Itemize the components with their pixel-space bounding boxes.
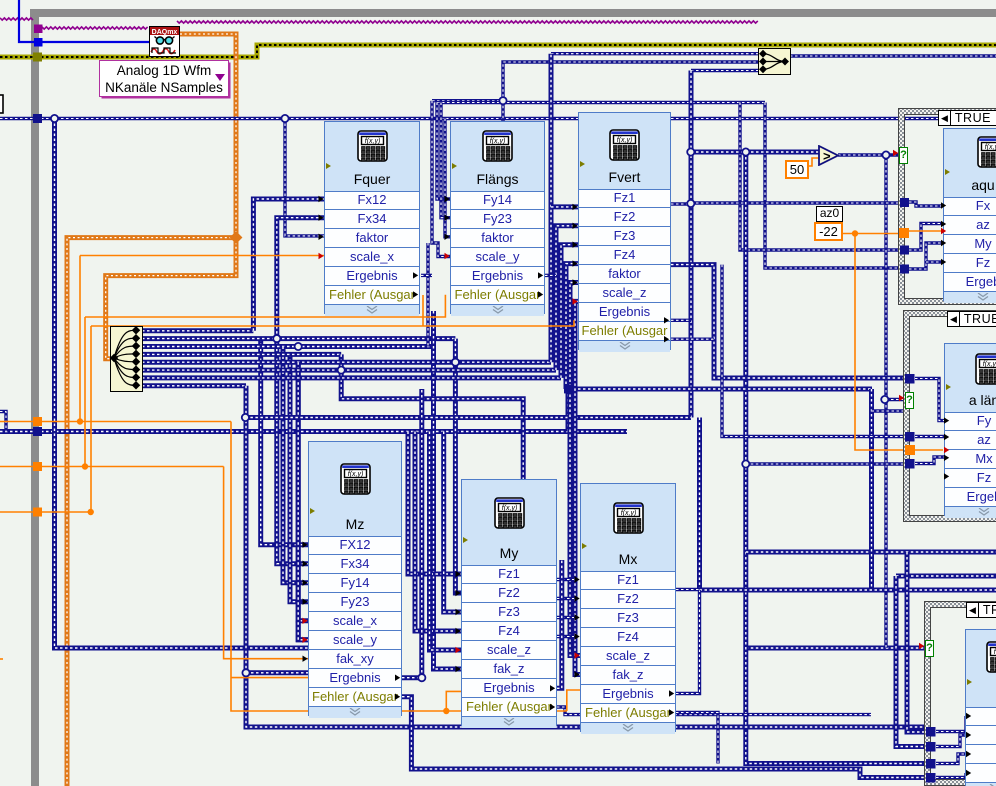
svg-text:DAQmx: DAQmx — [152, 29, 178, 36]
junction J-885 — [881, 396, 888, 403]
svg-text:f(x,y): f(x,y) — [983, 361, 996, 368]
junction J-285 — [281, 115, 288, 122]
tunnel c2-t2 — [905, 432, 915, 442]
wire os-mzerg (scalar orange) — [231, 422, 567, 712]
terminals Mx-left — [575, 576, 580, 677]
junction square 568 — [564, 385, 572, 393]
wire c1-w4 — [926, 260, 941, 263]
svg-text:f(x,y): f(x,y) — [365, 138, 381, 145]
wire v54-case3sel — [55, 119, 309, 649]
wire fan-w3 — [142, 344, 434, 349]
wire v699-h590 — [697, 418, 702, 591]
wire fan-w5 — [142, 360, 551, 365]
tunnel orange-y421 — [33, 417, 42, 426]
wire v285-Fquer-faktor — [285, 119, 324, 236]
wire bus-y430 — [41, 429, 627, 434]
wire os-c2az (scalar orange) — [915, 449, 943, 451]
wire v441-Fy23 — [441, 103, 450, 218]
constant 50 — [785, 160, 809, 179]
wire h417 — [245, 415, 691, 420]
terminals My-right — [550, 685, 555, 710]
junction J-298 — [295, 343, 302, 350]
node signal fan-out — [110, 326, 143, 397]
node My — [461, 479, 557, 726]
junction J-422 — [418, 674, 425, 681]
wire os-mzergleft (scalar orange) — [231, 677, 308, 679]
selector case1 — [899, 147, 908, 164]
wire h102-right — [437, 101, 765, 104]
terminals alaen-left — [944, 417, 949, 479]
wire olive-main (error/olive) — [41, 45, 996, 57]
junction J-886 — [882, 151, 889, 158]
wire blue-top (I32 blue) — [19, 0, 34, 42]
wire os-mzfak-left (scalar orange) — [0, 658, 3, 660]
wire mx-fz4 — [557, 635, 574, 638]
comparator greater-than — [818, 145, 840, 171]
wire fvert-fehler-out — [671, 338, 714, 341]
wire case2-t3-feed — [746, 462, 906, 465]
wire os-v80 (scalar orange) — [79, 256, 81, 422]
junction J-245 — [242, 414, 249, 421]
terminals Mx-right — [669, 690, 674, 715]
label Analog 1D Wfm NKanaele NSamples — [99, 60, 229, 97]
wire fvert-ergebnis-out — [671, 319, 691, 322]
terminals aqu-left — [941, 202, 946, 265]
wire merge-in2 — [432, 62, 758, 101]
junction OJ-85 — [82, 463, 88, 469]
svg-text:f(x,y): f(x,y) — [490, 138, 506, 145]
wire os-mxerg (scalar orange) — [567, 690, 580, 711]
wire h411-case2 — [872, 409, 905, 412]
wire os-c1az (scalar orange) — [909, 230, 941, 232]
junction J-246b — [242, 669, 249, 676]
wire os-50 (scalar orange) — [808, 158, 819, 166]
wire mx-fz2 — [557, 597, 574, 600]
junction J-691b — [687, 200, 694, 207]
wire v907-case3t1 — [907, 552, 927, 732]
wire mx-fz1 — [557, 578, 574, 581]
wire mx-fehler-out — [676, 713, 718, 764]
wire w2-down-MyFz2 — [455, 339, 461, 593]
wire purple-left (DAQmx task purple) — [0, 18, 33, 20]
wire v872 — [869, 389, 874, 590]
wire h389 — [568, 387, 872, 392]
wire case2-sel-feed — [886, 398, 906, 401]
terminals Fvert-right — [664, 317, 669, 342]
case structure case1 TRUE — [898, 108, 996, 305]
wire w4-down-MzFy23 — [290, 354, 308, 601]
junction OJ-90 — [88, 509, 94, 515]
wire os-fakxy (scalar orange) — [224, 467, 308, 659]
terminals My-left — [456, 571, 461, 672]
junction OJ-80 — [77, 418, 83, 424]
wire h590 — [700, 588, 996, 593]
tunnel c3-t1 — [926, 727, 936, 737]
tunnel olive — [33, 53, 42, 62]
tunnel blue — [34, 38, 43, 47]
wire os-v85 (scalar orange) — [84, 317, 86, 467]
wire w4-zig — [341, 354, 523, 479]
wire w2-up-Fx34 — [277, 218, 324, 339]
label az0 — [816, 206, 843, 222]
wire v568 — [566, 389, 571, 432]
wire v428-down — [426, 243, 429, 347]
wire gt-input — [691, 150, 819, 155]
wire v445-Flaengs-faktor — [445, 119, 450, 237]
tunnel purple — [34, 25, 43, 34]
wire flaengs-ergebnis-out — [545, 274, 556, 277]
wire orange-branch-left (2D-array orange) — [67, 238, 236, 786]
constant -22 — [814, 222, 843, 241]
junction J-341 — [338, 367, 345, 374]
wire w7-up-FvertFz3 — [561, 245, 578, 378]
wire c2-w2 — [915, 435, 944, 438]
tunnel navy-y118 — [33, 114, 42, 123]
junction OJ-446 — [443, 708, 449, 714]
node signal merge — [758, 48, 791, 80]
terminals Fquer-left — [319, 196, 324, 259]
wire bus-y118 — [41, 117, 996, 120]
node aqu — [943, 128, 996, 301]
wire os-C2 (scalar orange) — [422, 295, 424, 326]
wire w1-down-MzFX12 — [261, 339, 308, 545]
junction orange diamond — [230, 231, 243, 244]
wire v570-faktor-MxScaleZ — [570, 283, 580, 656]
wire w5-up-FvertFz1 — [549, 54, 554, 363]
wire os-t1 (scalar orange) — [0, 421, 231, 423]
svg-text:f(x,y): f(x,y) — [621, 510, 637, 517]
wire c3-w2 — [936, 735, 966, 747]
wire c1-w2 — [909, 224, 941, 251]
wire v765-case1t3 — [765, 103, 901, 269]
wire merge-in1 — [551, 52, 758, 55]
terminals Fquer-right — [413, 272, 418, 298]
junction J-745 — [742, 148, 749, 155]
wire c2-w1 — [915, 379, 944, 421]
node Mz — [308, 441, 402, 716]
wire os-B (scalar orange) — [85, 295, 445, 317]
wire v437-Fy14 — [437, 103, 450, 200]
wire purple-DAQmx-east (DAQmx task purple) — [177, 21, 758, 23]
wire w3-down-MyFakz — [434, 311, 462, 669]
tunnel c3-t4 — [926, 773, 936, 783]
wire v745-down — [746, 152, 927, 764]
wire case2-t2-feed — [722, 265, 906, 437]
junction J-455 — [452, 359, 459, 366]
wire w5-down-MzScaleY — [298, 621, 308, 640]
wire mz-fehler-out — [402, 697, 927, 778]
wire my-fz3 — [444, 432, 461, 613]
case case3 TRUE selector label — [966, 602, 996, 618]
wire mx-fz3 — [557, 616, 574, 619]
svg-text:f(x,y): f(x,y) — [502, 505, 518, 512]
wire w8-down-case3 — [246, 386, 927, 727]
wire purple-tunnel-to-DAQmx (DAQmx task purple) — [42, 27, 148, 29]
node Mx — [580, 483, 676, 732]
wire c3-w1 — [936, 716, 966, 732]
case structure case2 TRUE — [903, 310, 996, 522]
node case3-node — [965, 629, 996, 786]
wire c1-w3 — [909, 243, 941, 269]
wire c3-w4 — [936, 773, 966, 778]
node DAQmx Read — [149, 26, 180, 57]
tunnel c3-t3 — [926, 759, 936, 769]
wire h648-right — [746, 646, 926, 651]
wire c2-w3 — [915, 457, 944, 464]
tunnel c1-t3 — [900, 265, 909, 274]
wire fan-w2 — [142, 336, 455, 341]
selector case2 — [905, 392, 914, 409]
wire orange-DAQmx-down (2D-array orange) — [180, 34, 236, 238]
wire case1-t1-feed — [691, 201, 901, 204]
wire os-v91 (scalar orange) — [90, 326, 92, 512]
terminals Flaengs-left — [445, 196, 450, 259]
wire fan-w1 — [142, 328, 253, 333]
case case2 TRUE selector label — [947, 311, 996, 327]
partial icon left edge — [0, 95, 3, 113]
wire h552 — [746, 550, 996, 555]
junction J-503 — [499, 97, 506, 104]
wire stub-503 — [501, 101, 504, 121]
wire blue-to-DAQmx (I32 blue) — [42, 41, 149, 43]
tunnel c1-orange — [899, 228, 909, 238]
wire h576 — [896, 574, 996, 579]
wire bus-y118-left — [0, 117, 33, 120]
wire my-ergebnis-out — [557, 560, 562, 688]
wire merge-out — [790, 54, 996, 57]
wire elbow-left-bus — [0, 412, 6, 432]
selector case3 — [925, 640, 934, 657]
wire w8-MzErg-left — [246, 670, 308, 675]
wire c3-w3 — [936, 754, 966, 764]
node Flaengs — [450, 121, 545, 314]
wire my-fehler-out — [557, 707, 871, 715]
tunnel c1-t1 — [900, 198, 909, 207]
terminals Mz-left — [303, 542, 308, 662]
wire my-fz1 — [408, 432, 461, 575]
wire fvert-fz4-right — [671, 265, 906, 378]
wire os-myerg (scalar orange) — [446, 691, 461, 711]
tunnel c3-t2 — [926, 742, 936, 752]
wire gt-out — [838, 153, 898, 156]
wire mz-ergebnis-out — [402, 389, 422, 678]
wire w6-up-FvertFz2 — [556, 226, 578, 370]
wire merge-in3 — [691, 69, 758, 72]
wire fan-w4 — [142, 352, 341, 357]
svg-text:f(x,y): f(x,y) — [985, 144, 996, 151]
svg-text:>: > — [823, 149, 831, 164]
junction OJ-855 — [852, 230, 858, 236]
wire fvert-fz1-out — [671, 202, 691, 205]
wire os-scalex (scalar orange) — [80, 255, 324, 257]
tunnel c2-t3 — [905, 459, 915, 469]
wire orange-branch-split (2D-array orange) — [106, 238, 236, 359]
wire my-fz4 — [415, 432, 461, 632]
wire fquer-ergebnis-out — [421, 274, 432, 277]
wire olive-left (error/olive) — [0, 55, 33, 60]
junction J-276 — [273, 335, 280, 342]
tunnel orange-y512 — [33, 508, 42, 517]
case structure case3 TRUE — [924, 601, 996, 786]
wire w3-down-MzFy14 — [283, 347, 308, 583]
wire fvert-fz1-in — [551, 204, 578, 209]
wire mx-fz1-out — [676, 588, 700, 591]
wire os-C (scalar orange) — [91, 320, 574, 326]
junction J-744 — [742, 460, 749, 467]
case case1 TRUE selector label — [938, 110, 996, 126]
terminals Mz-right — [395, 675, 400, 700]
node Fvert — [578, 112, 671, 350]
wire w5-down-MzScaleY — [298, 362, 308, 640]
wire w2-down-MzFx34 — [277, 339, 308, 564]
wire v740-case1t2 — [740, 103, 901, 251]
wire v575-scalez-MxFakz — [575, 301, 580, 674]
wire c1-w1 — [909, 202, 941, 206]
wire os-t2 (scalar orange) — [0, 466, 224, 468]
wire os-m22 (scalar orange) — [842, 233, 904, 235]
node a-laengs — [944, 343, 996, 516]
svg-text:f(x,y): f(x,y) — [348, 471, 364, 478]
wire os-t3 (scalar orange) — [0, 511, 91, 513]
tunnel orange-y466 — [33, 462, 42, 471]
wire fan-w7 — [142, 375, 561, 380]
junction J-54 — [51, 115, 58, 122]
wire mx-ergebnis-out — [676, 590, 700, 694]
tunnel c2-t1 — [905, 374, 915, 384]
wire fan-w6 — [142, 368, 556, 373]
tunnel c1-t2 — [900, 246, 909, 255]
wire os-m22-down (scalar orange) — [855, 234, 906, 451]
wire bus-y430-left — [0, 429, 33, 434]
wire w5-down-MzScaleX — [298, 362, 308, 621]
wire v886-selectors — [884, 155, 887, 648]
terminals case3-left — [966, 713, 971, 776]
terminals Fvert-left — [573, 204, 578, 305]
node Fquer — [324, 121, 420, 314]
wire fan-w8 — [142, 383, 246, 388]
tunnel c2-orange — [905, 445, 915, 455]
wire v896-case3t2 — [896, 576, 927, 747]
tunnel navy-y430 — [33, 427, 42, 436]
terminals Flaengs-right — [538, 272, 543, 298]
wire v566-FvertFz4 — [566, 264, 578, 389]
svg-text:f(x,y): f(x,y) — [617, 137, 633, 144]
wire my-scalez — [430, 432, 462, 651]
wire w1-up-Fx12 — [253, 199, 324, 331]
wire v428-scaleY — [432, 101, 450, 257]
wire v691 — [689, 71, 694, 418]
junction J-691a — [687, 148, 694, 155]
